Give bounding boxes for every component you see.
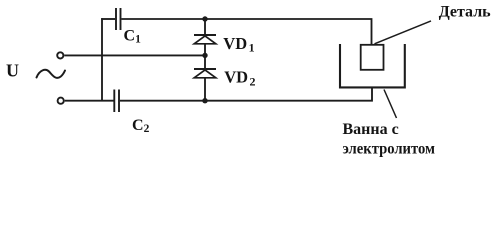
wire middle (top terminal to diode midpoint): [64, 54, 205, 56]
capacitor C2: [114, 90, 119, 113]
diode VD1: [194, 35, 216, 44]
svg-text:электролитом: электролитом: [343, 141, 436, 158]
svg-text:Деталь: Деталь: [439, 4, 491, 21]
node dot middle: [202, 53, 207, 58]
svg-text:C2: C2: [132, 117, 150, 135]
AC source symbol ~: [37, 70, 66, 78]
part (detail) square electrode: [361, 45, 384, 70]
svg-text:U: U: [6, 61, 19, 81]
node dot bottom: [202, 98, 207, 103]
wire left vertical: [101, 18, 103, 101]
wire top (to C1): [101, 18, 115, 20]
wire diode column: [204, 19, 206, 101]
node dot top: [202, 16, 207, 21]
wire bottom (C2 to riser) and riser to bath: [120, 87, 372, 101]
wire bottom (terminal to C2): [65, 100, 114, 102]
pointer line to bath: [384, 90, 397, 119]
svg-text:VD1: VD1: [223, 34, 254, 55]
wire top (C1 to corner) and drop to part: [122, 19, 372, 45]
terminal top: [57, 52, 63, 58]
terminal bottom: [58, 98, 64, 104]
svg-text:VD2: VD2: [224, 68, 255, 89]
diode VD2: [194, 69, 216, 78]
svg-text:C1: C1: [124, 28, 142, 46]
pointer line to part: [375, 21, 432, 44]
svg-text:Ванна с: Ванна с: [343, 121, 399, 138]
capacitor C1: [116, 8, 121, 30]
bath (vat): [340, 44, 405, 87]
